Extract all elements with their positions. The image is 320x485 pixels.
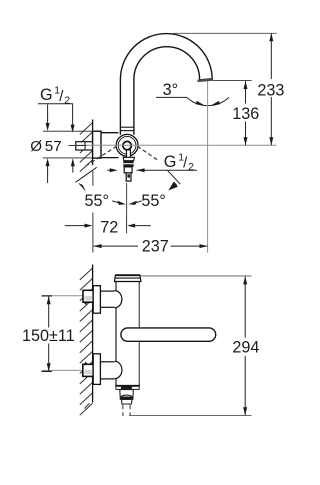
svg-text:2: 2 [188, 161, 194, 173]
svg-text:2: 2 [64, 94, 70, 106]
handle stem [124, 167, 132, 173]
body tube [116, 282, 139, 386]
leader dia57 to flange [69, 145, 87, 147]
upper S-union: ball bulge [115, 291, 122, 308]
svg-text:136: 136 [232, 105, 259, 123]
55-degree angle arrows [117, 201, 137, 205]
wall line (bottom view) [92, 265, 94, 403]
union centerline lower [42, 369, 83, 371]
upper S-union: escutcheon [93, 286, 100, 314]
svg-text:55°: 55° [85, 192, 109, 210]
dia 57 dimension [43, 130, 93, 132]
valve body circles [116, 134, 138, 156]
water stream dashes [122, 405, 124, 416]
lower S-union: ball bulge [115, 361, 122, 378]
swing range dashed line left [85, 146, 117, 166]
upper S-union: nut [83, 290, 93, 302]
handle collar (dark band) [123, 161, 133, 167]
72 dimension [92, 171, 94, 186]
3 degree arc [187, 97, 229, 105]
svg-text:57: 57 [45, 138, 62, 155]
svg-text:3°: 3° [163, 81, 178, 99]
handle hub cone [123, 157, 134, 160]
G 1/2 leader arrow [167, 170, 180, 184]
294 dimension [141, 275, 252, 277]
outlet nipple below stem [126, 173, 131, 181]
aerator tip [122, 399, 132, 404]
swing arc arrowhead left [78, 183, 86, 192]
top cap [115, 275, 141, 281]
body bottom edge [115, 385, 140, 387]
svg-text:55°: 55° [141, 192, 165, 210]
outlet centerline [207, 81, 209, 253]
inlet nipple G1/2 [76, 142, 93, 150]
wall flange (escutcheon) [93, 131, 101, 158]
lever handle [121, 328, 216, 341]
lower S-union: escutcheon [93, 354, 100, 385]
svg-text:G: G [164, 153, 177, 171]
233 dimension [173, 32, 277, 34]
union centerline upper [42, 295, 84, 297]
svg-text:72: 72 [100, 219, 118, 237]
lower S-union: pipe [100, 361, 114, 363]
spout outlet face [198, 78, 214, 82]
svg-text:Ø: Ø [30, 138, 42, 155]
swing arc extension left [76, 167, 97, 182]
237 dimension [94, 245, 138, 247]
svg-text:233: 233 [257, 82, 284, 100]
wall hatching (top view) [80, 123, 93, 172]
136 dimension [213, 80, 252, 82]
wall line (top view) [92, 120, 94, 166]
lower S-union: nut [83, 364, 93, 376]
cross-handle spoke [127, 150, 131, 158]
svg-text:294: 294 [232, 339, 259, 357]
150±11 dimension [42, 295, 53, 297]
handle centerline below [126, 183, 128, 215]
spout (gooseneck arc) [120, 34, 212, 135]
svg-text:G: G [40, 86, 53, 104]
upper S-union: pipe [100, 290, 114, 292]
neck cylinder [101, 132, 119, 134]
swing range dashed line right [137, 146, 158, 161]
svg-text:237: 237 [142, 238, 169, 256]
spout ring joint [120, 126, 133, 128]
aerator housing [120, 390, 134, 400]
aerator top band [116, 386, 139, 389]
valve centerline [76, 144, 277, 146]
leader G1/2 to wall nipple [72, 104, 74, 128]
swing arc arrowhead right [169, 182, 178, 191]
svg-text:150±11: 150±11 [22, 327, 75, 345]
wall hatching (bottom view) [80, 268, 93, 415]
